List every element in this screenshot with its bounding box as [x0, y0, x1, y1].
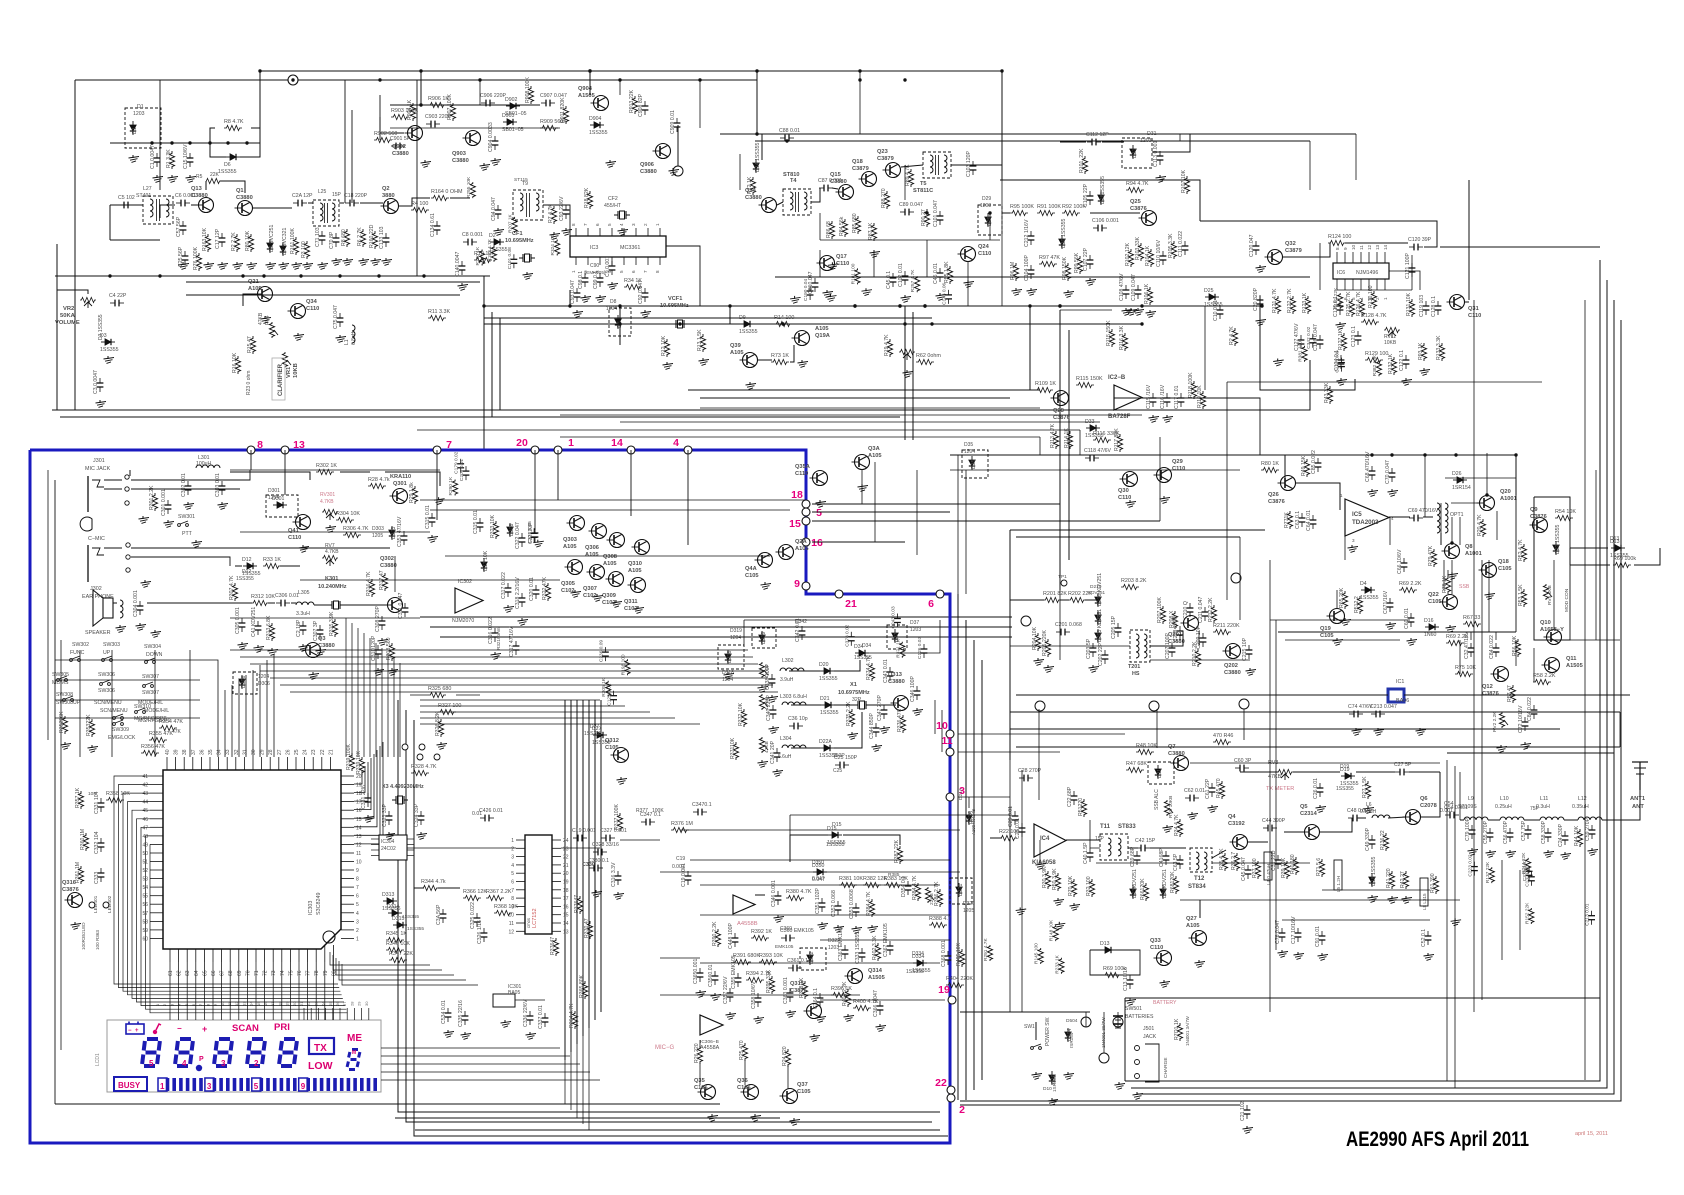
resistor — [987, 945, 992, 961]
junction — [898, 304, 901, 307]
wire right top rail — [1440, 246, 1600, 248]
resistor R386 2.7K — [937, 889, 942, 907]
resistor R387 22K — [897, 846, 902, 864]
junction — [241, 274, 244, 277]
svg-text:R42 27: R42 27 — [1400, 871, 1406, 888]
resistor R365 80K — [582, 981, 587, 999]
svg-text:SW307: SW307 — [142, 690, 159, 696]
wire CPU top bundle up — [345, 618, 347, 757]
svg-text:C2314: C2314 — [1300, 811, 1318, 817]
svg-text:0.15uH: 0.15uH — [1360, 809, 1377, 815]
resistor R40 180 — [1293, 857, 1298, 875]
connector pad 20 — [531, 446, 539, 454]
ground — [250, 262, 252, 265]
wire — [499, 318, 501, 410]
svg-text:R152 4.7K: R152 4.7K — [487, 238, 493, 261]
wire — [259, 71, 261, 150]
transistor Q307 — [590, 565, 605, 580]
transistor Q302 — [388, 598, 403, 613]
capacitor C105 22P — [1089, 191, 1091, 196]
capacitor — [1528, 866, 1530, 871]
ground — [195, 540, 197, 543]
ground — [297, 333, 299, 336]
svg-text:1SS355: 1SS355 — [739, 329, 758, 335]
svg-text:45: 45 — [142, 808, 148, 814]
ground — [1198, 960, 1200, 963]
ground — [967, 280, 969, 283]
capacitor C213 — [1371, 713, 1376, 715]
svg-text:R911 820K: R911 820K — [560, 97, 566, 123]
capacitor C209 10P — [1202, 633, 1204, 638]
capacitor C328 — [593, 851, 598, 853]
svg-text:A1505: A1505 — [1566, 663, 1583, 669]
wire T9 link — [543, 205, 570, 236]
resistor — [491, 246, 496, 262]
ground — [637, 606, 639, 609]
svg-text:A105: A105 — [248, 286, 262, 292]
svg-text:R15 47: R15 47 — [247, 336, 253, 353]
wire — [1411, 255, 1413, 290]
svg-text:73: 73 — [271, 970, 277, 976]
wire — [1009, 806, 1011, 860]
wire — [1451, 502, 1479, 504]
jack J301 — [87, 476, 89, 512]
svg-text:R313 6.8K: R313 6.8K — [266, 615, 272, 640]
resistor R3 100 — [304, 241, 309, 259]
svg-text:Q31: Q31 — [1468, 306, 1479, 312]
svg-text:R364 4.7K: R364 4.7K — [569, 1003, 575, 1028]
svg-text:61: 61 — [168, 970, 174, 976]
svg-text:D1: D1 — [132, 127, 138, 134]
svg-text:C190 0.04: C190 0.04 — [803, 279, 809, 301]
svg-text:D24KDV251: D24KDV251 — [1162, 869, 1168, 898]
wire across middle right — [1059, 310, 1061, 590]
svg-text:C355 EMK105: C355 EMK105 — [731, 955, 737, 989]
resistor R400 — [853, 1005, 871, 1010]
resistor R26 220 — [697, 1046, 702, 1064]
svg-text:1203: 1203 — [1140, 138, 1152, 144]
svg-text:R76 100K: R76 100K — [193, 246, 199, 270]
resistor R119 10K — [1200, 391, 1205, 409]
wire — [1128, 847, 1138, 849]
svg-text:SW307: SW307 — [142, 674, 159, 680]
svg-text:2: 2 — [959, 1104, 965, 1116]
wire from pad 16 — [812, 541, 905, 543]
ground — [1547, 850, 1549, 853]
svg-text:C19: C19 — [676, 856, 685, 862]
svg-text:R37647: R37647 — [550, 937, 556, 955]
ground — [1449, 625, 1451, 628]
wire — [1446, 760, 1448, 1081]
wire — [395, 1117, 780, 1119]
resistor — [1489, 867, 1494, 883]
svg-text:C352 0.068: C352 0.068 — [831, 890, 837, 917]
wire — [159, 80, 161, 190]
svg-text:1SS355: 1SS355 — [589, 130, 608, 136]
capacitor C133 103 — [385, 233, 387, 238]
transistor Q308 — [610, 533, 625, 548]
svg-text:R93 1K: R93 1K — [1418, 342, 1424, 360]
resistor R30 3.9K — [1045, 871, 1050, 889]
capacitor C203 5P — [1092, 643, 1094, 648]
ground — [699, 990, 701, 993]
capacitor C111 0.022 — [1184, 241, 1186, 246]
svg-text:2: 2 — [511, 846, 514, 852]
svg-text:1204: 1204 — [258, 674, 269, 680]
svg-text:R40 180: R40 180 — [1290, 854, 1296, 874]
svg-text:R377: R377 — [636, 808, 648, 814]
wire audio right box — [1534, 497, 1620, 640]
svg-text:R233 1K: R233 1K — [1054, 954, 1060, 973]
capacitor C353 47/16V — [403, 531, 405, 536]
IC1 BA06 (blue) — [1388, 689, 1404, 702]
resistor R202 — [1068, 597, 1086, 602]
svg-text:1N4001 3A/7W: 1N4001 3A/7W — [1185, 1015, 1190, 1046]
svg-text:R2 2.7K: R2 2.7K — [231, 232, 237, 251]
svg-text:C243 0.03: C243 0.03 — [890, 606, 896, 628]
transistor Q309 — [609, 572, 624, 587]
junction — [1390, 453, 1393, 456]
resistor — [555, 240, 560, 256]
resistor R79 47K — [1431, 549, 1436, 567]
svg-text:C105: C105 — [797, 1089, 811, 1095]
svg-text:C305 0.001: C305 0.001 — [235, 607, 241, 634]
capacitor C69 — [1409, 517, 1414, 519]
dashed diode D35 — [962, 450, 988, 478]
wire — [958, 751, 1060, 753]
diode D13 — [1611, 547, 1625, 549]
svg-text:C24 330P: C24 330P — [1558, 823, 1564, 847]
svg-text:C92 0.047: C92 0.047 — [638, 280, 644, 304]
ground — [1137, 308, 1139, 311]
capacitor C71 103 — [321, 231, 323, 236]
ground — [1129, 500, 1131, 503]
svg-text:TP1: TP1 — [1058, 574, 1067, 580]
svg-text:R384 4.7K: R384 4.7K — [866, 891, 872, 916]
svg-text:4: 4 — [619, 223, 624, 226]
svg-text:3.3uH: 3.3uH — [296, 611, 310, 617]
capacitor C367 EMK105 — [889, 941, 891, 946]
svg-text:C29 0.01: C29 0.01 — [1008, 806, 1014, 827]
resistor R69 — [1399, 587, 1417, 592]
LCD digit 5 — [284, 1037, 295, 1041]
connector — [1021, 616, 1031, 626]
svg-text:4: 4 — [511, 863, 514, 869]
wire front-end lower rail — [186, 281, 480, 283]
svg-text:C105: C105 — [1428, 599, 1442, 605]
svg-text:C8 0.001: C8 0.001 — [462, 232, 483, 238]
wire — [1440, 533, 1442, 545]
svg-text:Q10: Q10 — [1540, 620, 1551, 626]
svg-text:DOWN: DOWN — [146, 652, 163, 658]
svg-text:RV301: RV301 — [320, 492, 335, 498]
ground — [1410, 638, 1412, 641]
wire — [110, 204, 118, 206]
svg-text:R391 680K: R391 680K — [733, 953, 760, 959]
svg-text:1: 1 — [511, 838, 514, 844]
svg-text:19: 19 — [938, 984, 950, 996]
ground — [438, 497, 440, 500]
junction — [208, 141, 211, 144]
wire bottom right power vertical — [1085, 1012, 1087, 1027]
wire — [339, 202, 344, 204]
svg-text:21: 21 — [845, 598, 857, 610]
wire — [960, 1011, 1090, 1013]
resistor R33 — [263, 563, 281, 568]
ground — [757, 1016, 759, 1019]
ground — [1152, 415, 1154, 418]
svg-text:69: 69 — [237, 970, 243, 976]
ground — [847, 1014, 849, 1017]
junction — [1140, 322, 1143, 325]
capacitor C2A — [293, 202, 298, 204]
svg-text:R145 100: R145 100 — [1034, 943, 1040, 964]
connector pad 22 — [947, 1086, 955, 1094]
svg-text:6: 6 — [928, 598, 934, 610]
diode D202 — [1097, 611, 1099, 625]
LCD bargraph — [158, 1078, 167, 1091]
svg-text:R401 2.2K: R401 2.2K — [842, 981, 848, 1006]
ground — [1488, 592, 1490, 595]
wire step left of pads — [934, 700, 936, 734]
svg-text:6: 6 — [631, 270, 636, 273]
capacitor C19 — [573, 837, 578, 839]
ground — [855, 926, 857, 929]
svg-text:L1: L1 — [344, 339, 350, 345]
wire mid box bundle 2 — [420, 699, 600, 701]
capacitor — [1473, 862, 1475, 867]
svg-text:Q18: Q18 — [1498, 559, 1509, 565]
resistor R212 2.2K — [1211, 605, 1216, 623]
capacitor C304 0.001 — [139, 601, 141, 606]
svg-text:470 R46: 470 R46 — [1213, 733, 1233, 739]
svg-text:R127 1K: R127 1K — [1338, 329, 1344, 350]
crystal K301 — [328, 604, 332, 606]
resistor — [1376, 360, 1381, 376]
svg-text:Q14: Q14 — [745, 188, 757, 194]
svg-text:R312 10K: R312 10K — [251, 594, 275, 600]
wire — [811, 188, 820, 202]
wire — [789, 670, 820, 672]
capacitor C337 0.01 — [544, 1013, 546, 1018]
svg-text:X1: X1 — [850, 682, 857, 688]
diode D210 KDV251 — [1097, 593, 1099, 607]
svg-text:10KB: 10KB — [293, 363, 299, 378]
svg-text:C315 0.01: C315 0.01 — [473, 510, 479, 534]
svg-text:Q4A: Q4A — [745, 566, 757, 572]
svg-text:D6: D6 — [224, 162, 231, 168]
wire — [1226, 382, 1228, 600]
ground — [871, 925, 873, 928]
svg-text:D314: D314 — [387, 904, 400, 910]
ground — [1405, 896, 1407, 899]
svg-text:Q309: Q309 — [602, 593, 616, 599]
svg-text:D315: D315 — [392, 916, 405, 922]
capacitor C904 0.0033 — [494, 136, 496, 141]
resistor R902 — [374, 137, 392, 142]
svg-text:1SS355: 1SS355 — [819, 676, 838, 682]
capacitor C127 47/6V — [1300, 335, 1302, 340]
svg-text:ST811C: ST811C — [913, 188, 933, 194]
wire mid lines across blue box — [420, 616, 1012, 618]
capacitor C301 0.001 — [167, 500, 169, 505]
resistor R118 100K — [1191, 381, 1196, 399]
svg-text:23: 23 — [311, 749, 317, 755]
dashed diode D318 — [718, 645, 744, 669]
inductor L5 — [1334, 860, 1342, 890]
wire — [843, 835, 900, 845]
resistor R903 — [391, 114, 409, 119]
dashed diode D11 — [1148, 762, 1174, 784]
svg-text:R29 1.8k: R29 1.8k — [409, 482, 415, 503]
svg-text:40: 40 — [165, 749, 171, 755]
resistor R7O1 1K — [1177, 1023, 1182, 1041]
svg-text:C118 47/6V: C118 47/6V — [1084, 448, 1112, 454]
ground — [1371, 489, 1373, 492]
diode D25 — [1205, 296, 1219, 298]
wire — [1278, 631, 1516, 633]
wire — [1199, 900, 1201, 918]
ground — [319, 648, 321, 651]
diode D322 — [809, 951, 811, 965]
svg-text:R512.2: R512.2 — [1354, 596, 1360, 613]
svg-text:R384 4.7K: R384 4.7K — [912, 875, 918, 900]
wire CPU chamfer staircase — [330, 952, 430, 965]
capacitor C76 0.047 — [1281, 928, 1283, 933]
capacitor C316 0.022 — [494, 628, 496, 633]
ground — [879, 1024, 881, 1027]
resistor R132 1K — [1391, 357, 1396, 375]
svg-text:R28 4.7k: R28 4.7k — [368, 477, 390, 483]
IC6 pins — [1336, 252, 1338, 263]
svg-text:C210 Q: C210 Q — [1183, 601, 1189, 619]
wire mic jack runs — [131, 470, 250, 480]
resistor R129 — [1365, 357, 1383, 362]
ground — [1340, 378, 1342, 381]
resistor R126 4.7K — [1359, 299, 1364, 317]
ground — [819, 500, 821, 503]
diode D19 — [1341, 775, 1355, 777]
svg-text:R325 680: R325 680 — [428, 686, 451, 692]
svg-text:Q307: Q307 — [583, 586, 597, 592]
capacitor C39 68P — [1136, 851, 1138, 856]
svg-text:22: 22 — [306, 1001, 311, 1006]
ground — [1281, 950, 1283, 953]
resistor R114 1K — [1067, 431, 1072, 449]
svg-text:16: 16 — [263, 1001, 268, 1006]
LED LED401 — [89, 902, 95, 908]
svg-text:IC2−B: IC2−B — [1108, 375, 1126, 381]
svg-text:10KB: 10KB — [1384, 340, 1397, 346]
wire — [677, 125, 679, 171]
svg-text:D10: D10 — [1043, 1086, 1052, 1092]
resistor — [915, 276, 920, 292]
junction — [1058, 304, 1061, 307]
svg-text:T11: T11 — [1100, 824, 1111, 830]
wire — [407, 847, 516, 849]
capacitor C307 3P — [319, 625, 321, 630]
junction — [377, 274, 380, 277]
resistor R5 — [206, 178, 220, 183]
svg-text:NJM2070: NJM2070 — [452, 618, 474, 624]
svg-text:C110: C110 — [1150, 945, 1163, 951]
transistor Q33 — [1157, 951, 1172, 966]
resistor R43 33K — [1327, 386, 1332, 404]
wire — [1358, 817, 1366, 819]
svg-text:R124 100: R124 100 — [1328, 234, 1351, 240]
resistor R18 82K — [587, 191, 592, 209]
ground — [1058, 922, 1060, 925]
ground — [821, 922, 823, 925]
wire vertical x1585 — [1584, 300, 1586, 1080]
diode D13 loop — [1090, 950, 1140, 975]
svg-text:C89 0.047: C89 0.047 — [899, 202, 923, 208]
svg-text:C2 18P: C2 18P — [296, 619, 302, 637]
svg-text:3: 3 — [221, 1059, 226, 1068]
svg-text:D904: D904 — [589, 116, 602, 122]
svg-text:1SS355: 1SS355 — [854, 655, 872, 661]
svg-text:R43 33K: R43 33K — [1324, 382, 1330, 403]
svg-text:C68 470/16V: C68 470/16V — [1365, 451, 1371, 482]
capacitor C202 22P — [1104, 650, 1106, 655]
svg-text:C105 22P: C105 22P — [1083, 183, 1089, 207]
wire — [1156, 709, 1158, 748]
capacitor C44 — [1263, 827, 1268, 829]
wire audio top — [1284, 455, 1286, 483]
ground — [1129, 998, 1131, 1001]
capacitor C27 — [1395, 771, 1400, 773]
capacitor — [533, 528, 535, 533]
wire — [1569, 548, 1571, 565]
svg-text:Q904: Q904 — [578, 86, 593, 92]
resistor R69 — [1613, 562, 1631, 567]
svg-text:Q316: Q316 — [62, 880, 76, 886]
wire osc top — [744, 619, 870, 621]
svg-text:7: 7 — [446, 439, 452, 451]
svg-text:3: 3 — [631, 223, 636, 226]
svg-text:R345 1K: R345 1K — [386, 931, 407, 937]
svg-text:C671/16V: C671/16V — [1383, 590, 1389, 614]
transistor Q904 — [594, 96, 609, 111]
wire right of box — [957, 594, 959, 1100]
svg-text:D8: D8 — [610, 299, 617, 305]
svg-text:C323 33P: C323 33P — [382, 803, 388, 827]
capacitor C3470.1 — [693, 811, 698, 813]
ground — [461, 283, 463, 286]
wire — [834, 660, 860, 671]
wire — [861, 470, 863, 504]
svg-text:15: 15 — [256, 1001, 261, 1006]
svg-text:C236 0.09: C236 0.09 — [598, 640, 604, 662]
svg-text:D30 1SS355: D30 1SS355 — [1061, 218, 1067, 248]
svg-text:C52 0.1: C52 0.1 — [1421, 929, 1427, 947]
junction — [988, 211, 991, 214]
junction — [568, 304, 571, 307]
ground — [837, 925, 839, 928]
wire — [1159, 437, 1161, 455]
wire — [729, 306, 731, 324]
svg-text:T12: T12 — [1194, 876, 1205, 882]
resistor R124 — [1328, 240, 1346, 245]
capacitor C24 330P — [1564, 831, 1566, 836]
svg-text:AE2990 AFS April 2011: AE2990 AFS April 2011 — [1346, 1128, 1529, 1151]
crystal VCF1 — [672, 323, 676, 325]
wire audio-IC2 link — [1142, 398, 1260, 455]
svg-text:D319: D319 — [761, 631, 767, 644]
connector pad 21 — [835, 590, 843, 598]
ground — [1166, 825, 1168, 828]
svg-text:37: 37 — [191, 749, 197, 755]
